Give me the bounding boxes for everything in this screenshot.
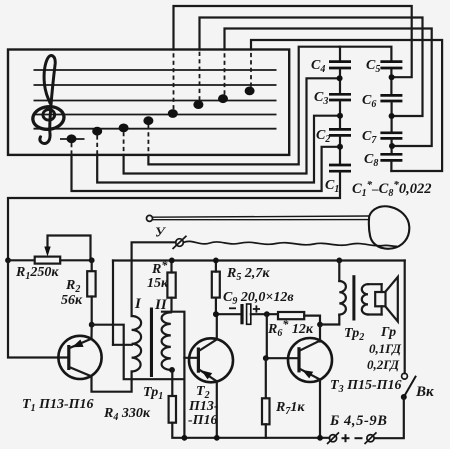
- T3 base bar: [297, 347, 300, 372]
- junction dot T3 collector node: [317, 322, 323, 328]
- svg-text:С1*–С8*0,022: С1*–С8*0,022: [352, 179, 431, 199]
- junction dot Tr2 top: [336, 258, 342, 264]
- wire note1 to C2-C1 junction: [72, 147, 341, 191]
- svg-text:Б 4,5-9В: Б 4,5-9В: [329, 413, 388, 429]
- supply rail horizontal: [113, 259, 405, 261]
- label R* 15k: [147, 258, 169, 291]
- wire dashed note4 down: [147, 125, 149, 155]
- junction dot C3-C2: [337, 113, 343, 119]
- wire top node to C5: [340, 47, 392, 61]
- svg-text:С3: С3: [314, 90, 328, 107]
- supply rail left corner down: [112, 261, 114, 345]
- wire note8 to C8 bottom: [251, 40, 442, 171]
- wire C8 bottom: [390, 162, 392, 171]
- capacitor C8: [380, 154, 402, 160]
- label R2 56k: [61, 278, 83, 308]
- resistor R6 body (horizontal): [278, 312, 304, 319]
- wire rail right corner to switch: [404, 261, 406, 374]
- junction dot base bus ground: [182, 435, 188, 441]
- wire note2 to C3-C2 junction: [97, 116, 340, 183]
- wire R2 bottom to emitter node: [91, 297, 93, 325]
- junction dot T2 collector top: [213, 311, 219, 317]
- wire node to Tr2 primary bottom: [320, 315, 339, 325]
- wire R4 bottom to rail: [172, 423, 329, 438]
- C9 polarity minus: [229, 307, 236, 309]
- wire C9 right to R6: [251, 313, 278, 315]
- note 1: [67, 134, 77, 143]
- capacitor C6: [380, 95, 402, 101]
- wire note5 to C5-C6 junction: [174, 6, 412, 77]
- note 5: [168, 109, 178, 118]
- wire switch to battery rail: [375, 397, 404, 438]
- capacitor C1: [329, 165, 351, 171]
- transformer Tr1 winding I: [132, 316, 142, 372]
- T3 emitter lead with arrow: [301, 369, 321, 438]
- transformer Tr2 primary winding: [339, 260, 346, 314]
- svg-text:Т3 П15-П16: Т3 П15-П16: [330, 378, 402, 395]
- svg-text:R5 2,7к: R5 2,7к: [226, 266, 270, 283]
- wire dashed note6 up: [199, 50, 201, 101]
- svg-text:I: I: [134, 296, 142, 312]
- resistor R2 body: [87, 271, 95, 296]
- capacitor C3: [329, 94, 351, 100]
- wire rail tap to coil I: [113, 344, 132, 346]
- wire dashed note8 up: [250, 50, 252, 87]
- label T2 type: [188, 384, 219, 428]
- capacitor C7: [380, 133, 402, 139]
- svg-text:R1250к: R1250к: [15, 265, 59, 282]
- battery plus sign: [342, 434, 350, 442]
- resistor R4 body: [169, 396, 176, 423]
- stylus handle: [369, 206, 409, 248]
- transistor T2 circle: [189, 338, 233, 382]
- junction dot R5 top: [213, 258, 219, 264]
- capacitor C4: [329, 62, 351, 68]
- wire dashed note5 up: [173, 50, 175, 110]
- svg-text:-П16: -П16: [188, 413, 218, 428]
- wire stylus to coil I top: [132, 242, 176, 316]
- svg-text:Тр2: Тр2: [344, 326, 364, 343]
- wire R2 top lead: [91, 260, 93, 271]
- switch Vk: [401, 373, 416, 400]
- capacitor C2: [329, 129, 351, 135]
- stylus connector circle: [173, 236, 187, 249]
- staff line 2: [34, 84, 277, 86]
- svg-text:15к: 15к: [147, 276, 169, 291]
- battery terminal right: [365, 432, 377, 444]
- stylus shaft: [153, 216, 370, 220]
- T2 base bar: [197, 348, 200, 373]
- wire R7 top lead: [265, 358, 267, 398]
- wire C1 bottom to left edge: [8, 172, 340, 260]
- transistor T3 circle: [288, 338, 332, 382]
- junction dot R* top: [169, 258, 175, 264]
- svg-text:II: II: [154, 297, 168, 313]
- note 2: [92, 127, 102, 136]
- note 3: [119, 124, 129, 133]
- junction dot T2 emitter ground: [214, 435, 220, 441]
- wire R7 bottom lead: [265, 424, 267, 438]
- staff box frame: [8, 50, 289, 155]
- staff line 3: [34, 100, 277, 102]
- svg-text:С6: С6: [362, 93, 376, 110]
- node junction left edge: [5, 257, 11, 263]
- svg-text:Тр1: Тр1: [143, 385, 163, 402]
- wire C6-C7: [391, 102, 393, 131]
- treble clef: [32, 56, 65, 144]
- T1 base bar: [67, 345, 70, 370]
- wire C3-C2: [339, 101, 341, 128]
- svg-text:Гр: Гр: [380, 325, 396, 340]
- Tr2 core bar: [352, 275, 355, 320]
- wire note6 to C6-C7 junction: [200, 18, 423, 117]
- wire R5 leads: [215, 261, 217, 315]
- stylus flexible cord: [184, 241, 398, 246]
- svg-text:С5: С5: [366, 58, 380, 75]
- resistor R5 body: [212, 272, 220, 298]
- svg-text:Т1 П13-П16: Т1 П13-П16: [22, 397, 94, 414]
- wire note3 to C4-C3 junction: [124, 78, 340, 173]
- wire R1 right lead: [60, 259, 91, 261]
- wire dashed note1 down: [71, 143, 73, 155]
- junction dot T1 emitter node: [89, 322, 95, 328]
- note 6: [193, 100, 203, 109]
- wire C4-C3: [339, 69, 341, 93]
- svg-text:С7: С7: [362, 129, 377, 146]
- note 8: [245, 87, 255, 96]
- R1 wiper arm loop: [48, 236, 91, 261]
- junction dot R7 top: [263, 355, 269, 361]
- junction dot C5-C6: [389, 74, 395, 80]
- stylus probe tip circle: [147, 215, 153, 221]
- loudspeaker Gr: [375, 277, 398, 322]
- wire winding II bottom to R4: [171, 370, 173, 396]
- junction dot R1-R2: [89, 257, 95, 263]
- svg-text:С4: С4: [311, 58, 325, 75]
- staff line 1: [34, 69, 277, 71]
- wire R* leads: [170, 261, 172, 312]
- svg-text:С9 20,0×12в: С9 20,0×12в: [223, 290, 294, 307]
- transformer Tr1 winding II: [162, 312, 171, 370]
- potentiometer R1 body: [35, 257, 61, 264]
- C9 polarity plus: [253, 305, 260, 312]
- wire left edge down to T1 base: [8, 260, 67, 357]
- svg-text:С2: С2: [316, 128, 330, 145]
- Tr1 core bar: [150, 308, 153, 378]
- wire C9 node down to T3 base line: [267, 314, 299, 358]
- R1 wiper arrowhead: [44, 247, 50, 257]
- resistor R7 body: [262, 398, 270, 424]
- T3 collector lead: [301, 341, 321, 351]
- note 1 ledger line: [60, 138, 85, 140]
- wire dashed note2 down: [96, 135, 98, 155]
- svg-text:0,1ГД: 0,1ГД: [369, 341, 402, 356]
- svg-text:С8: С8: [364, 152, 378, 169]
- capacitor C5: [380, 62, 402, 68]
- T2 emitter lead with arrow: [200, 370, 217, 438]
- svg-text:R71к: R71к: [275, 400, 305, 417]
- junction dot C4-C3: [337, 75, 343, 81]
- svg-text:У: У: [155, 226, 167, 241]
- junction dot C6-C7: [389, 113, 395, 119]
- wire note7 to C7-C8 junction: [225, 29, 432, 147]
- junction dot winding II bottom: [169, 367, 175, 373]
- staff line 4: [34, 114, 277, 116]
- transformer Tr2 secondary winding: [362, 284, 382, 314]
- winding II top lead: [162, 312, 184, 438]
- junction dot T3 emitter ground: [317, 435, 323, 441]
- svg-text:0,2ГД: 0,2ГД: [367, 357, 400, 372]
- svg-text:56к: 56к: [61, 293, 83, 308]
- junction dot C7-C8: [389, 143, 395, 149]
- T1 collector lead: [70, 367, 132, 392]
- T1 emitter lead with arrow: [70, 325, 92, 348]
- resistor R* body: [167, 273, 175, 298]
- note 7: [218, 94, 228, 103]
- battery terminal left: [327, 432, 339, 444]
- svg-text:R4 330к: R4 330к: [103, 406, 151, 423]
- T2 collector lead: [200, 314, 217, 350]
- transistor T1 circle: [58, 336, 101, 379]
- svg-text:П13-: П13-: [188, 399, 219, 414]
- wire C7-C8: [391, 140, 393, 154]
- wire C2-C1: [339, 137, 341, 164]
- wire node to C9: [216, 313, 241, 315]
- wire note4 to cap top node: [148, 47, 339, 165]
- wire node down to T3 collector: [319, 325, 321, 342]
- wire to R1: [8, 259, 35, 261]
- wire dashed note7 up: [224, 50, 226, 95]
- wire C4 top lead: [339, 47, 341, 61]
- svg-text:Вк: Вк: [415, 384, 434, 400]
- staff line 5: [34, 128, 277, 130]
- junction dot C2-C1: [337, 144, 343, 150]
- wire R6 right to T3 collector node: [304, 316, 320, 325]
- wire coil bottom bus to ground: [132, 378, 185, 380]
- wire dashed note3 down: [123, 132, 125, 155]
- wire emitter node to coil I bottom: [92, 325, 132, 380]
- svg-text:С1: С1: [325, 178, 339, 195]
- junction dot C9 left node: [213, 311, 219, 317]
- wire C5-C6: [390, 69, 392, 94]
- junction dot C9 right node: [264, 311, 270, 317]
- note 4: [143, 116, 153, 125]
- capacitor C9 electrolytic: [242, 304, 251, 324]
- battery minus sign: [355, 437, 363, 439]
